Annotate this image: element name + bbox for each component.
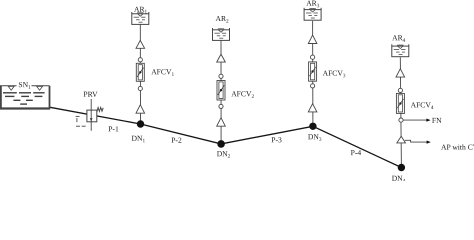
- node circle: [219, 74, 223, 78]
- valve V3b (triangle): [308, 104, 317, 112]
- AFCV1 valve body: [136, 63, 144, 81]
- reservoir SN1 tank: [0, 86, 50, 109]
- node DN4: [398, 164, 405, 171]
- valve V2a (triangle): [217, 54, 226, 62]
- wire branch 1 riser: [139, 24, 141, 124]
- water waves in SN1: [3, 93, 45, 104]
- AFCV4 valve body: [396, 93, 404, 113]
- node circle: [219, 104, 223, 108]
- wire branch 2 riser: [220, 40, 222, 144]
- svg-text:P-4: P-4: [351, 148, 362, 157]
- valve V1b (triangle): [136, 105, 145, 114]
- valve V4b (triangle): [397, 136, 406, 143]
- svg-text:FN: FN: [432, 116, 442, 125]
- node circle: [311, 55, 315, 59]
- valve V4a (triangle): [396, 69, 405, 77]
- svg-text:P-3: P-3: [271, 135, 282, 144]
- AP arrow: [405, 140, 431, 143]
- valve V1a (triangle): [136, 40, 145, 48]
- node DN1: [137, 120, 144, 127]
- node circle: [398, 88, 402, 92]
- air vessel AR4 tank: [392, 44, 409, 56]
- svg-text:PRV: PRV: [83, 90, 98, 99]
- FN arrow: [403, 119, 430, 122]
- svg-text:AP with CV: AP with CV: [441, 143, 474, 152]
- wire branch 4 riser: [400, 57, 401, 167]
- node circle: [311, 84, 315, 88]
- AFCV2 valve body: [217, 81, 225, 101]
- svg-text:P-1: P-1: [108, 124, 119, 133]
- valve V2b (triangle): [217, 118, 226, 127]
- svg-text:P-2: P-2: [171, 136, 182, 145]
- node DN2: [217, 140, 225, 148]
- air vessel AR1 tank: [132, 12, 149, 24]
- node circle: [138, 58, 142, 62]
- AFCV3 valve body: [309, 62, 317, 81]
- PRV valve: [76, 99, 104, 131]
- node circle: [138, 86, 142, 90]
- node circle FN tap: [399, 118, 403, 122]
- water level marks on SN1: [8, 86, 42, 90]
- air vessel AR2 tank: [213, 28, 230, 40]
- wire main pipe P-1..P-4 polyline: [50, 107, 401, 167]
- valve V3a (triangle): [308, 35, 317, 43]
- node DN3: [309, 123, 316, 130]
- wire branch 3 riser: [312, 21, 314, 126]
- air vessel AR3 tank: [304, 8, 321, 20]
